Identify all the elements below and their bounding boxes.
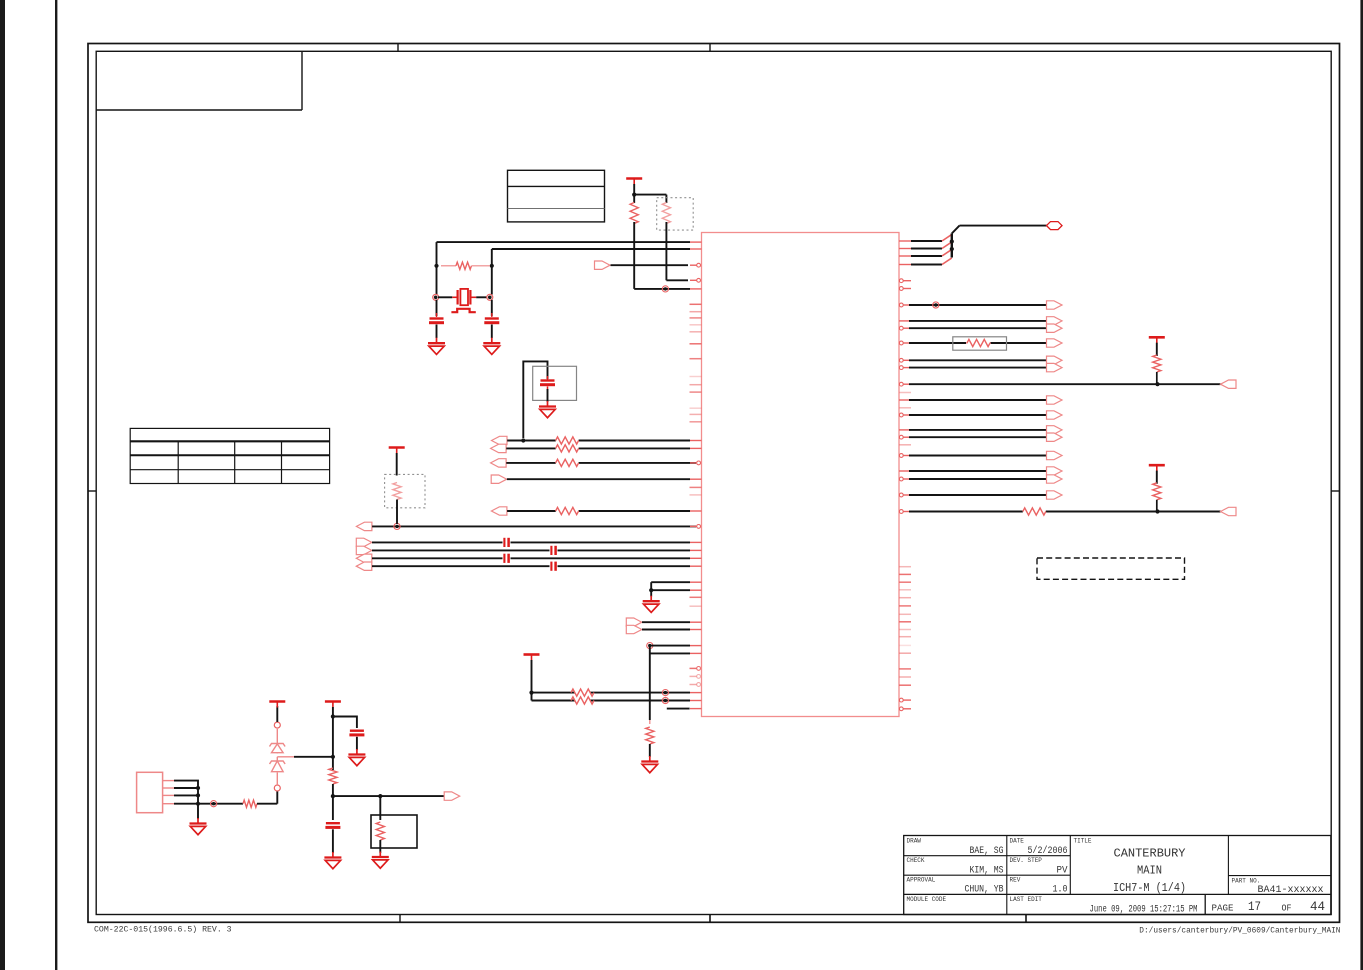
port (output) xyxy=(1047,356,1063,364)
wire xyxy=(507,478,690,480)
value drawn-by xyxy=(970,845,1004,857)
junction xyxy=(1155,382,1159,386)
ground xyxy=(428,338,445,355)
wire xyxy=(909,511,1221,513)
capacitor C (RTC) xyxy=(540,376,555,390)
wire xyxy=(909,470,1047,472)
label LAST EDIT xyxy=(1010,896,1043,903)
resistor R (pull-up) xyxy=(630,203,638,224)
junction (circled) xyxy=(933,302,939,308)
value approved-by xyxy=(965,884,1004,896)
port (output) xyxy=(1047,467,1063,475)
port (output) xyxy=(626,618,642,626)
option box (black) xyxy=(371,815,417,848)
port (output) xyxy=(356,538,372,546)
wire xyxy=(1156,471,1158,484)
junction xyxy=(490,264,494,268)
port (input) xyxy=(356,562,372,570)
wire xyxy=(642,629,690,631)
port (output) xyxy=(1047,396,1063,404)
wire xyxy=(633,184,635,203)
wire xyxy=(642,621,690,623)
capacitor C (series) xyxy=(504,554,508,563)
ground xyxy=(348,749,365,766)
resistor R (in box) xyxy=(376,822,384,853)
wire xyxy=(909,359,1047,361)
wire xyxy=(909,342,1047,344)
wire xyxy=(174,787,198,789)
wire XTAL1 to U1 xyxy=(437,242,691,294)
wire xyxy=(333,717,357,729)
node circle xyxy=(274,722,280,728)
wire xyxy=(436,325,438,339)
ground xyxy=(539,401,556,418)
U1 left inverted pins xyxy=(690,667,701,687)
port (output) xyxy=(1047,475,1063,483)
top-left revision box xyxy=(96,51,302,110)
wire xyxy=(396,453,398,476)
capacitor C (xtal right) xyxy=(484,319,499,323)
port (input) xyxy=(491,475,507,483)
U1 right inverted stub pins xyxy=(899,279,911,291)
port (input) xyxy=(595,261,611,269)
port (output) xyxy=(1047,411,1063,419)
value revision xyxy=(1053,884,1068,896)
off-page connector xyxy=(1047,222,1063,230)
U1 left unconnected pins xyxy=(690,304,702,606)
port (output) xyxy=(626,625,642,633)
svg-text:PART NO.: PART NO. xyxy=(1232,877,1261,884)
junction xyxy=(529,691,533,695)
wire bus member 4 xyxy=(911,258,952,265)
form number text xyxy=(94,925,232,935)
junction (circled) xyxy=(647,643,653,649)
title line 1 xyxy=(1114,848,1186,861)
value last-edit xyxy=(1090,904,1198,915)
port (bidir) xyxy=(356,522,372,530)
svg-text:BAE, SG: BAE, SG xyxy=(970,845,1004,857)
capacitor C (series) xyxy=(551,562,555,571)
IC U1 body (ICH7-M) xyxy=(702,233,900,717)
power flag VCC xyxy=(1149,465,1165,471)
wire xyxy=(174,781,198,819)
wire xyxy=(952,226,1047,234)
port (output) xyxy=(1047,324,1063,332)
border tick left-mid xyxy=(88,490,96,492)
svg-text:CHECK: CHECK xyxy=(907,857,925,864)
wire xyxy=(372,525,696,527)
label DRAW xyxy=(907,838,922,845)
capacitor C (series) xyxy=(551,546,555,555)
ground xyxy=(483,338,500,355)
resistor R xyxy=(556,507,579,514)
power flag VCC xyxy=(325,702,341,708)
dashed note box xyxy=(1037,558,1185,579)
wire xyxy=(634,195,666,203)
wire xyxy=(491,300,493,317)
wire xyxy=(372,565,690,567)
svg-text:LAST EDIT: LAST EDIT xyxy=(1010,896,1043,903)
wire xyxy=(174,794,198,796)
resistor R xyxy=(556,459,579,466)
wire xyxy=(909,304,1047,306)
resistor R (divider top) xyxy=(329,768,337,798)
option box (gray) xyxy=(953,337,1007,350)
svg-text:PV: PV xyxy=(1057,864,1069,876)
wire xyxy=(909,436,1047,438)
wire xyxy=(532,692,691,694)
U1 right unconnected pins xyxy=(899,393,911,686)
wire xyxy=(396,500,398,525)
wire xyxy=(436,300,438,317)
signal table (left) xyxy=(130,428,329,483)
value date xyxy=(1028,845,1068,857)
port (output) xyxy=(1047,451,1063,459)
wire xyxy=(909,478,1047,480)
wire xyxy=(532,700,691,702)
power flag VCC xyxy=(269,702,285,708)
label APPROVAL xyxy=(907,877,936,884)
wire xyxy=(332,707,334,770)
junction xyxy=(331,755,335,759)
wire xyxy=(332,796,334,820)
junction (circled) xyxy=(211,801,217,807)
resistor R xyxy=(571,689,594,696)
wire xyxy=(651,582,690,596)
svg-text:DATE: DATE xyxy=(1010,838,1025,845)
port (bidir) xyxy=(1221,380,1237,388)
wire xyxy=(506,447,690,449)
wire bus member 1 xyxy=(911,234,952,241)
port (bidir) xyxy=(491,507,507,515)
power flag VCC xyxy=(626,179,642,185)
resistor R (series) xyxy=(1023,508,1046,515)
port (bidir) xyxy=(492,436,508,444)
wire xyxy=(547,389,549,402)
junction xyxy=(196,802,200,806)
wire xyxy=(909,494,1047,496)
wire xyxy=(909,367,1047,369)
capacitor C xyxy=(325,823,340,827)
resistor R xyxy=(556,437,579,444)
svg-text:COM-22C-015(1996.6.5) REV. 3: COM-22C-015(1996.6.5) REV. 3 xyxy=(94,925,232,935)
resistor R (series) xyxy=(243,800,277,807)
wire xyxy=(909,327,1047,329)
port (output) xyxy=(1047,339,1063,347)
U1 right bottom inverted pins xyxy=(899,698,911,711)
junction xyxy=(196,793,200,797)
wire xyxy=(276,706,278,722)
ground xyxy=(190,818,207,835)
junction (circled) xyxy=(662,690,668,696)
port (output) xyxy=(1047,363,1063,371)
resistor R xyxy=(571,697,594,704)
right scan edge bar xyxy=(1360,0,1363,970)
title block grid xyxy=(904,836,1331,915)
junction xyxy=(632,193,636,197)
wire xyxy=(650,646,690,720)
junction xyxy=(1155,509,1159,513)
wire xyxy=(650,645,690,647)
label OF xyxy=(1282,903,1292,914)
diode D1 (zener) xyxy=(270,729,286,754)
wire (mid tap) xyxy=(277,757,333,761)
connector pin 3 xyxy=(163,794,174,796)
port (bidir) xyxy=(491,444,507,452)
resistor R (pull-up) xyxy=(1153,483,1161,512)
port (output) xyxy=(444,792,460,800)
resistor R (pull-down opt) xyxy=(393,483,401,500)
connector pin 2 xyxy=(163,787,174,789)
border tick bottom-right xyxy=(1025,915,1027,923)
port (output) xyxy=(356,546,372,554)
svg-text:BA41-xxxxxx: BA41-xxxxxx xyxy=(1258,884,1324,896)
svg-text:MODULE CODE: MODULE CODE xyxy=(907,896,947,903)
junction xyxy=(521,438,525,442)
wire xyxy=(332,829,334,853)
diode stack node circle xyxy=(274,785,280,791)
junction xyxy=(378,794,382,798)
title line 2 xyxy=(1137,865,1162,878)
wire xyxy=(611,264,689,266)
crystal Y1 xyxy=(433,289,493,312)
U1 left pin stubs xyxy=(690,242,702,708)
border tick top-mid xyxy=(709,44,711,52)
wire xyxy=(507,440,690,442)
svg-text:CANTERBURY: CANTERBURY xyxy=(1114,848,1186,861)
resistor R (to gnd) xyxy=(646,720,654,757)
ground xyxy=(641,756,658,773)
capacitor C (series) xyxy=(504,538,508,547)
port (output) xyxy=(1047,491,1063,499)
resistor (xtal feedback) xyxy=(441,262,490,269)
value part number xyxy=(1258,884,1324,896)
svg-text:PAGE: PAGE xyxy=(1212,903,1234,914)
svg-text:REV: REV xyxy=(1010,877,1021,884)
resistor R xyxy=(556,445,579,452)
border tick bottom-mid xyxy=(709,915,711,923)
wire xyxy=(372,541,690,543)
label PAGE xyxy=(1212,903,1234,914)
junction xyxy=(331,714,335,718)
svg-text:MAIN: MAIN xyxy=(1137,865,1162,878)
junction xyxy=(196,786,200,790)
wire xyxy=(531,660,533,701)
wire xyxy=(333,795,444,797)
label REV xyxy=(1010,877,1021,884)
wire xyxy=(356,737,358,750)
svg-text:OF: OF xyxy=(1282,903,1292,914)
diode D2 (zener) xyxy=(270,761,286,785)
wire xyxy=(507,510,690,512)
port (output) xyxy=(1047,317,1063,325)
wire xyxy=(909,320,1047,322)
bus vertical xyxy=(951,233,953,257)
border tick right-mid xyxy=(1331,490,1339,492)
port (output) xyxy=(1047,433,1063,441)
dotted option box xyxy=(657,198,694,230)
note table (top) xyxy=(508,170,605,222)
wire xyxy=(506,462,696,464)
left vertical rule xyxy=(55,0,57,970)
wire xyxy=(909,455,1047,457)
option box (gray) xyxy=(533,366,577,400)
label MODULE CODE xyxy=(907,896,947,903)
wire bus member 2 xyxy=(911,242,952,249)
capacitor C (xtal left) xyxy=(429,319,444,323)
label DEV. STEP xyxy=(1010,857,1043,864)
value dev-step xyxy=(1057,864,1069,876)
power flag VCC xyxy=(389,448,405,454)
dotted option box xyxy=(385,474,425,507)
label CHECK xyxy=(907,857,925,864)
junction xyxy=(950,239,954,243)
wire bus member 3 xyxy=(911,249,952,256)
svg-text:June 09, 2009 15:27:15 PM: June 09, 2009 15:27:15 PM xyxy=(1090,904,1198,915)
svg-text:5/2/2006: 5/2/2006 xyxy=(1028,845,1068,857)
junction xyxy=(331,794,335,798)
connector pin 1 xyxy=(163,780,174,782)
junction xyxy=(950,247,954,251)
resistor R (pull-up) xyxy=(1153,355,1161,384)
port (bidir) xyxy=(491,459,507,467)
border tick bottom-left xyxy=(399,915,401,923)
power flag VCC xyxy=(524,655,540,661)
svg-text:17: 17 xyxy=(1248,899,1261,914)
svg-text:1.0: 1.0 xyxy=(1053,884,1068,896)
wire xyxy=(372,557,690,559)
ground xyxy=(372,852,389,869)
svg-text:KIM, MS: KIM, MS xyxy=(970,864,1004,876)
svg-text:DEV. STEP: DEV. STEP xyxy=(1010,857,1043,864)
U1 right pin stubs xyxy=(899,241,911,513)
junction xyxy=(649,588,653,592)
wire xyxy=(909,414,1047,416)
power flag VCC xyxy=(1149,337,1165,343)
left scan edge bar xyxy=(0,0,5,970)
connector pin 4 xyxy=(163,803,174,805)
border tick top-left xyxy=(397,44,399,52)
wire xyxy=(651,589,690,591)
value checked-by xyxy=(970,864,1004,876)
svg-text:TITLE: TITLE xyxy=(1074,838,1092,845)
wire xyxy=(909,383,1221,385)
resistor R (series opt) xyxy=(966,339,991,346)
junction (circled) xyxy=(662,286,668,292)
file path text xyxy=(1139,928,1341,936)
port (input) xyxy=(356,554,372,562)
junction (circled) xyxy=(662,697,668,703)
title line 3 xyxy=(1113,882,1186,895)
port (output) xyxy=(1047,426,1063,434)
capacitor C (decoupling) xyxy=(349,731,364,735)
resistor R (pull-up, option) xyxy=(662,203,670,224)
label TITLE xyxy=(1074,838,1092,845)
svg-text:APPROVAL: APPROVAL xyxy=(907,877,936,884)
wire xyxy=(174,803,243,805)
wire XTAL2 to U1 xyxy=(492,249,690,295)
wire xyxy=(666,222,688,280)
wire xyxy=(909,429,1047,431)
wire xyxy=(491,325,493,339)
connector J (4-pin) xyxy=(137,772,163,812)
wire xyxy=(523,361,547,438)
value page number xyxy=(1248,899,1261,914)
wire (stub) xyxy=(667,708,690,710)
junction xyxy=(434,264,438,268)
junction (circled) xyxy=(394,523,400,529)
ground xyxy=(324,852,341,869)
wire xyxy=(1156,343,1158,356)
svg-text:44: 44 xyxy=(1310,899,1325,914)
svg-text:DRAW: DRAW xyxy=(907,838,922,845)
wire xyxy=(372,549,690,551)
svg-text:D:/users/canterbury/PV_0609/Ca: D:/users/canterbury/PV_0609/Canterbury_M… xyxy=(1139,928,1341,936)
label DATE xyxy=(1010,838,1025,845)
wire xyxy=(379,796,381,820)
value page total xyxy=(1310,899,1325,914)
wire xyxy=(909,399,1047,401)
port (output) xyxy=(1047,301,1063,309)
port (bidir) xyxy=(1221,507,1237,515)
wire xyxy=(276,791,278,804)
svg-text:CHUN, YB: CHUN, YB xyxy=(965,884,1004,896)
svg-text:ICH7-M (1/4): ICH7-M (1/4) xyxy=(1113,882,1186,895)
ground xyxy=(643,596,660,613)
wire xyxy=(634,222,690,289)
label PART NO. xyxy=(1232,877,1261,884)
